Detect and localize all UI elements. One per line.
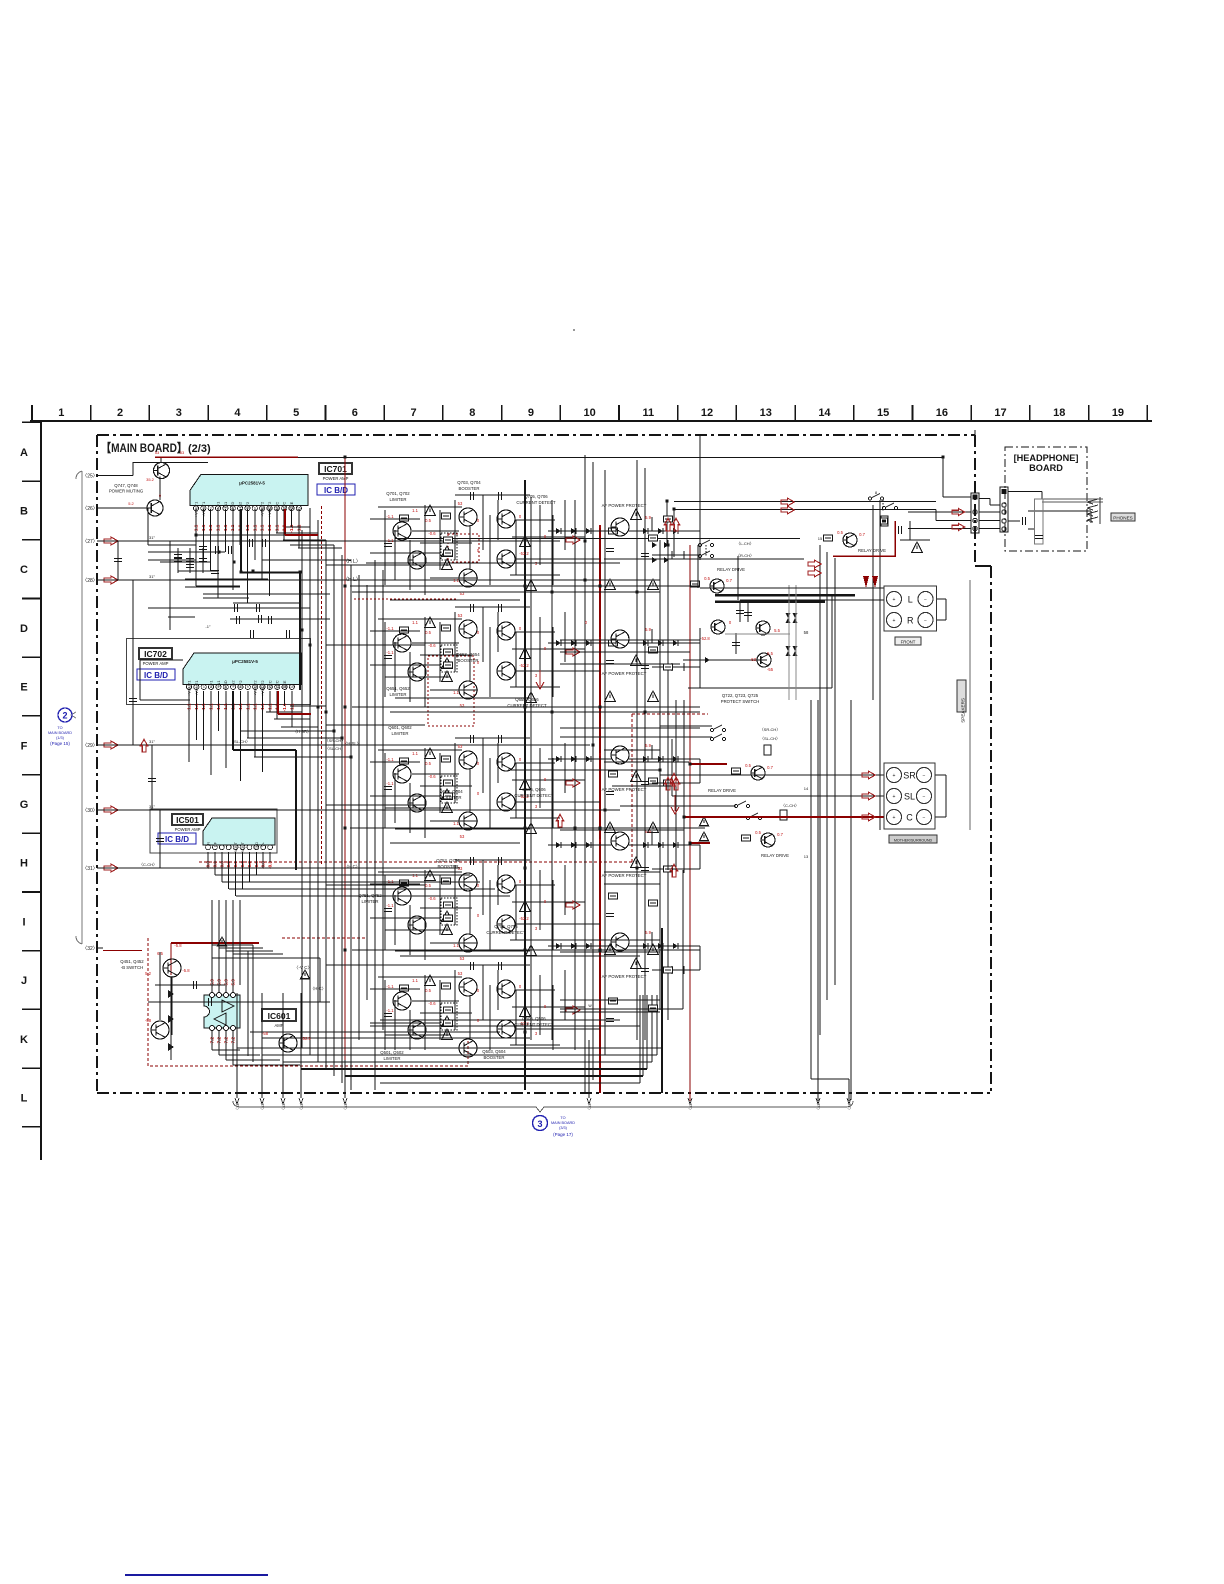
svg-text:53: 53 [155,450,160,455]
svg-text:0.7: 0.7 [726,578,732,583]
svg-text:VEE: VEE [282,680,287,688]
svg-text:CURRENT DETECT: CURRENT DETECT [514,1022,554,1027]
svg-text:12: 12 [701,407,713,419]
svg-text:-0.6: -0.6 [428,896,436,901]
svg-text:IC B/D: IC B/D [144,671,168,680]
svg-text:-58: -58 [262,1031,269,1036]
svg-text:+: + [893,773,896,779]
svg-text:Q451, Q452: Q451, Q452 [120,959,144,964]
svg-text:GND: GND [255,842,259,850]
svg-text:IN2: IN2 [231,680,236,687]
svg-text:14: 14 [804,786,809,791]
svg-text:(3/3): (3/3) [559,1126,568,1130]
svg-text:1.1: 1.1 [412,978,418,983]
svg-text:V+: V+ [262,842,266,847]
svg-text:10: 10 [584,407,596,419]
svg-text:Q701, Q702: Q701, Q702 [386,491,410,496]
svg-text:NF2: NF2 [238,680,243,688]
svg-text:L: L [908,595,913,605]
svg-text:IN: IN [207,842,211,846]
svg-text:−: − [924,618,927,624]
svg-text:1: 1 [58,407,64,419]
svg-text:3: 3 [176,407,182,419]
svg-text:B: B [20,505,28,517]
svg-text:RELAY DRIVE: RELAY DRIVE [858,548,886,553]
svg-text:〈30〉: 〈30〉 [82,808,98,814]
svg-text:53: 53 [460,834,465,839]
svg-text:FRONT: FRONT [901,640,916,645]
svg-text:-5.8: -5.8 [174,943,182,948]
svg-text:L: L [21,1092,28,1104]
svg-text:NF1: NF1 [216,501,221,509]
svg-text:H: H [20,858,28,870]
svg-text:5.9: 5.9 [645,930,651,935]
svg-text:Q503, Q504: Q503, Q504 [482,1049,506,1054]
svg-text:〈H SL〉: 〈H SL〉 [343,741,361,746]
svg-text:MAIN BOARD: MAIN BOARD [551,1121,575,1125]
svg-text:AF POWER PROTECT: AF POWER PROTECT [602,503,647,508]
svg-text:C: C [20,564,28,576]
svg-text:〈R-CH〉: 〈R-CH〉 [736,553,754,558]
svg-text:(Page 15): (Page 15) [50,741,70,746]
svg-text:〈26〉: 〈26〉 [82,506,98,512]
svg-text:9: 9 [528,407,534,419]
svg-text:-1.1: -1.1 [386,781,394,786]
svg-text:-52.8: -52.8 [700,636,710,641]
svg-text:0.5: 0.5 [425,761,431,766]
svg-text:〈SL-CH〉: 〈SL-CH〉 [325,746,345,751]
svg-text:CURRENT DETECT: CURRENT DETECT [516,500,556,505]
svg-text:VCC: VCC [275,680,280,689]
svg-text:PROTECT SWITCH: PROTECT SWITCH [721,699,760,704]
svg-text:AF POWER PROTECT: AF POWER PROTECT [602,787,647,792]
svg-text:Q747, Q748: Q747, Q748 [114,483,138,488]
svg-text:-1°: -1° [205,624,211,629]
svg-text:0.5: 0.5 [704,576,710,581]
svg-text:+: + [893,794,896,800]
svg-text:13: 13 [760,407,772,419]
svg-text:〈33〉: 〈33〉 [299,1100,304,1112]
svg-text:-1.1: -1.1 [386,984,394,989]
svg-text:14: 14 [818,407,831,419]
svg-text:TO: TO [560,1116,565,1120]
svg-text:MAIN BOARD: MAIN BOARD [48,731,72,735]
svg-text:R: R [907,616,914,626]
svg-text:BOARD: BOARD [1029,463,1063,473]
svg-text:-1.1: -1.1 [386,757,394,762]
svg-text:-B SWITCH: -B SWITCH [121,965,143,970]
svg-text:【MAIN BOARD】: 【MAIN BOARD】 [101,440,187,455]
svg-text:(1/3): (1/3) [56,736,65,740]
svg-text:31°: 31° [149,574,155,579]
svg-text:LIMITER: LIMITER [390,692,407,697]
svg-text:0.5: 0.5 [745,763,751,768]
svg-text:Q653, Q654: Q653, Q654 [456,652,480,657]
svg-text:-52.2: -52.2 [519,916,529,921]
svg-text:13: 13 [804,854,809,859]
svg-text:VCC: VCC [282,502,287,511]
svg-text:[HEADPHONE]: [HEADPHONE] [1014,453,1079,463]
svg-text:−: − [923,815,926,821]
svg-text:〈C-CH〉: 〈C-CH〉 [139,862,157,867]
svg-text:-5.8: -5.8 [182,968,190,973]
svg-text:〈33〉: 〈33〉 [260,1100,265,1112]
svg-text:Q501, Q502: Q501, Q502 [380,1050,404,1055]
svg-text:RELAY DRIVE: RELAY DRIVE [717,567,745,572]
svg-text:μPC2581V-5: μPC2581V-5 [239,480,265,485]
svg-text:18: 18 [1053,407,1065,419]
svg-text:17: 17 [994,407,1006,419]
svg-text:Q703, Q704: Q703, Q704 [457,480,481,485]
svg-text:F: F [21,740,28,752]
svg-text:5.9: 5.9 [645,627,651,632]
svg-text:6: 6 [352,407,358,419]
svg-text:53: 53 [458,613,463,618]
svg-text:Q705, Q706: Q705, Q706 [524,494,548,499]
svg-text:LIMITER: LIMITER [362,899,379,904]
svg-text:4: 4 [234,407,241,419]
svg-text:5.2: 5.2 [128,501,134,506]
svg-text:Q753, Q754: Q753, Q754 [436,858,460,863]
svg-text:PHONES: PHONES [1113,516,1132,521]
svg-text:-55: -55 [767,667,774,672]
svg-text:8: 8 [469,407,475,419]
svg-text:〈L-CH〉: 〈L-CH〉 [736,541,753,546]
svg-text:BOOSTER: BOOSTER [483,1055,504,1060]
svg-text:〈SL-CH〉: 〈SL-CH〉 [760,736,780,741]
svg-text:53: 53 [460,956,465,961]
svg-text:〈33〉: 〈33〉 [688,1100,693,1112]
svg-text:Q655, Q656: Q655, Q656 [515,697,539,702]
svg-text:0.5: 0.5 [755,830,761,835]
svg-text:-52.5: -52.5 [301,1036,311,1041]
svg-text:5.5: 5.5 [774,628,780,633]
svg-text:3: 3 [203,685,205,689]
svg-text:31°: 31° [149,739,155,744]
svg-text:GND: GND [223,680,228,689]
svg-text:5.9: 5.9 [645,515,651,520]
svg-text:〈28〉: 〈28〉 [82,578,98,584]
svg-text:VCC: VCC [274,502,279,511]
svg-text:NF: NF [213,841,217,847]
svg-text:I: I [22,916,25,928]
svg-text:0.5: 0.5 [837,530,843,535]
svg-text:1.1: 1.1 [412,751,418,756]
svg-text:〈-V C〉: 〈-V C〉 [294,965,312,970]
svg-text:2: 2 [117,407,123,419]
svg-text:SPEAKERS: SPEAKERS [961,698,966,723]
svg-text:LIMITER: LIMITER [384,1056,401,1061]
svg-text:POWER AMP: POWER AMP [175,827,201,832]
svg-text:〈33〉: 〈33〉 [281,1100,286,1112]
svg-text:TO: TO [57,726,62,730]
svg-text:〈H C〉: 〈H C〉 [344,864,360,869]
svg-text:-1.1: -1.1 [386,650,394,655]
svg-text:5.9: 5.9 [645,743,651,748]
svg-text:〈SR-CH〉: 〈SR-CH〉 [760,727,781,732]
svg-text:〈29〉: 〈29〉 [82,743,98,749]
svg-text:1.1: 1.1 [453,821,459,826]
svg-text:SL: SL [904,792,915,802]
svg-text:D: D [20,623,28,635]
svg-text:+: + [893,815,896,821]
svg-text:〈31〉: 〈31〉 [82,866,98,872]
svg-text:-52.2: -52.2 [519,551,529,556]
svg-text:RELAY DRIVE: RELAY DRIVE [708,788,736,793]
svg-text:IC501: IC501 [176,815,199,825]
svg-text:35.2: 35.2 [146,477,155,482]
svg-text:0.5: 0.5 [425,883,431,888]
svg-text:-52.2: -52.2 [519,663,529,668]
svg-text:K: K [20,1034,28,1046]
svg-text:AMP: AMP [274,1023,283,1028]
svg-text:〈33〉: 〈33〉 [343,1100,348,1112]
svg-text:IC601: IC601 [268,1011,291,1021]
svg-text:(Page 17): (Page 17) [553,1132,573,1137]
svg-text:-58: -58 [145,1018,152,1023]
svg-text:AF POWER PROTECT: AF POWER PROTECT [602,671,647,676]
svg-text:1.1: 1.1 [412,508,418,513]
svg-text:−: − [924,597,927,603]
svg-text:IC702: IC702 [144,649,167,659]
svg-text:E: E [20,682,27,694]
svg-text:15: 15 [877,407,889,419]
svg-text:BOOSTER: BOOSTER [458,486,479,491]
svg-text:-0.6: -0.6 [428,774,436,779]
svg-text:POWER AMP: POWER AMP [143,661,169,666]
svg-text:2: 2 [62,711,67,721]
svg-text:BOOSTER: BOOSTER [457,658,478,663]
svg-text:1.1: 1.1 [453,578,459,583]
svg-text:(2/3): (2/3) [188,443,211,455]
svg-text:0.5: 0.5 [425,988,431,993]
svg-text:〈H SR〉: 〈H SR〉 [293,729,311,734]
svg-text:+: + [893,618,896,624]
svg-text:−: − [923,773,926,779]
svg-text:0.7: 0.7 [767,765,773,770]
svg-text:53: 53 [180,450,185,455]
svg-text:〈H C〉: 〈H C〉 [310,986,326,991]
svg-text:〈C-CH〉: 〈C-CH〉 [781,803,799,808]
svg-text:POWER MUTING: POWER MUTING [109,489,144,494]
svg-text:AF POWER PROTECT: AF POWER PROTECT [602,974,647,979]
svg-text:RELAY DRIVE: RELAY DRIVE [761,853,789,858]
svg-text:〈33〉: 〈33〉 [816,1100,821,1112]
svg-text:-1.1: -1.1 [386,514,394,519]
svg-text:-53: -53 [750,657,757,662]
svg-text:15: 15 [818,536,823,541]
svg-text:A: A [20,447,28,459]
svg-text:AF POWER PROTECT: AF POWER PROTECT [602,873,647,878]
svg-text:−: − [923,794,926,800]
svg-text:NF2: NF2 [245,501,250,509]
svg-text:0.5: 0.5 [425,518,431,523]
svg-text:5: 5 [293,407,299,419]
svg-text:μPC2581V-5: μPC2581V-5 [232,659,258,664]
svg-text:〈H L〉: 〈H L〉 [343,577,361,583]
svg-text:Q722, Q723, Q725: Q722, Q723, Q725 [722,693,759,698]
svg-text:53: 53 [458,744,463,749]
svg-text:0.7: 0.7 [777,832,783,837]
svg-text:Q755, Q756: Q755, Q756 [494,924,518,929]
svg-text:53: 53 [458,971,463,976]
svg-text:VEE: VEE [289,501,294,509]
svg-text:+: + [893,597,896,603]
svg-text:16: 16 [936,407,948,419]
svg-text:C: C [906,813,913,823]
svg-text:IC701: IC701 [324,464,347,474]
svg-text:〈32〉: 〈32〉 [82,946,98,952]
svg-text:9: 9 [247,685,249,689]
svg-text:5.2: 5.2 [145,971,151,976]
svg-text:〈25〉: 〈25〉 [82,474,98,480]
svg-text:0.5: 0.5 [425,630,431,635]
svg-text:SR: SR [903,771,916,781]
svg-text:J: J [21,975,27,987]
svg-text:-1.1: -1.1 [386,538,394,543]
svg-text:3: 3 [537,1119,542,1129]
svg-text:IC B/D: IC B/D [165,835,189,844]
svg-text:31°: 31° [149,535,155,540]
svg-text:IN2: IN2 [238,501,243,508]
svg-text:LIMITER: LIMITER [392,731,409,736]
svg-text:〈27〉: 〈27〉 [82,539,98,545]
svg-text:1.1: 1.1 [412,620,418,625]
svg-text:1.1: 1.1 [453,690,459,695]
svg-text:1.1: 1.1 [453,943,459,948]
svg-text:VOUT: VOUT [241,841,245,852]
svg-text:-1.1: -1.1 [386,1008,394,1013]
svg-text:VOUT: VOUT [234,841,238,852]
svg-text:LIMITER: LIMITER [390,497,407,502]
svg-text:-1.1: -1.1 [386,626,394,631]
svg-text:7: 7 [410,407,416,419]
svg-text:CURRENT DETECT: CURRENT DETECT [486,930,526,935]
svg-text:IN1: IN1 [223,501,228,508]
svg-text:Q605, Q606: Q605, Q606 [522,787,546,792]
svg-text:-0.6: -0.6 [428,1001,436,1006]
svg-text:〈H L〉: 〈H L〉 [343,559,361,565]
svg-text:53: 53 [458,501,463,506]
svg-text:11: 11 [643,407,655,419]
svg-text:15: 15 [290,685,294,689]
svg-text:58: 58 [804,630,809,635]
svg-text:Q601, Q602: Q601, Q602 [388,725,412,730]
svg-text:-1.1: -1.1 [386,903,394,908]
svg-text:IN1: IN1 [216,680,221,687]
svg-text:Q651, Q652: Q651, Q652 [386,686,410,691]
svg-text:NF1: NF1 [209,680,214,688]
svg-text:5.5: 5.5 [767,651,773,656]
svg-text:19: 19 [1112,407,1124,419]
svg-text:G: G [20,799,29,811]
svg-text:MOTHER/SURROUND: MOTHER/SURROUND [894,839,933,843]
svg-text:BOOSTER: BOOSTER [440,795,461,800]
svg-text:0.7: 0.7 [859,532,865,537]
svg-text:Q505, Q506: Q505, Q506 [522,1016,546,1021]
svg-text:-0.6: -0.6 [428,531,436,536]
svg-text:Q603, Q604: Q603, Q604 [439,789,463,794]
svg-text:CURRENT DETECT: CURRENT DETECT [514,793,554,798]
svg-text:〈33〉: 〈33〉 [587,1100,592,1112]
svg-text:VCC: VCC [267,680,272,689]
svg-text:-0.6: -0.6 [428,643,436,648]
